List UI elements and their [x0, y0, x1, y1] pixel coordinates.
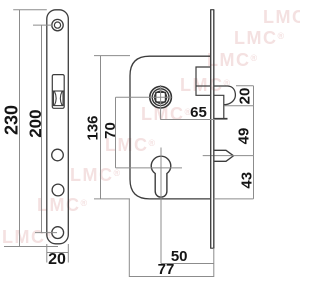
faceplate hole 3 bottom	[52, 227, 64, 239]
svg-text:LMC®: LMC®	[263, 7, 300, 27]
dimension 136 line	[100, 56, 102, 199]
dimension 20 latch extension bottom	[224, 105, 253, 107]
dimension 65 line	[161, 119, 228, 121]
latch bolt step rectangle	[214, 95, 228, 118]
svg-text:77: 77	[158, 261, 175, 278]
forend plate bottom cap	[210, 247, 214, 249]
spindle hole outer ring	[150, 86, 172, 108]
dimension 20 faceplate line	[47, 252, 69, 254]
svg-text:65: 65	[190, 104, 207, 121]
svg-text:43: 43	[239, 172, 256, 189]
forend plate top cap	[210, 9, 214, 11]
dimension 230 extension bottom	[4, 246, 58, 248]
spindle hole inner ring	[155, 91, 167, 103]
latch bolt face bottom line	[53, 105, 64, 107]
spindle horizontal centerline	[116, 96, 172, 98]
latch bolt face top line	[52, 90, 64, 92]
spindle hole middle ring	[152, 89, 169, 106]
faceplate screw hole top inner	[54, 22, 60, 28]
dimension 20 latch extension top	[236, 85, 253, 87]
keyhole euro profile	[151, 156, 171, 197]
latch bolt face hourglass	[54, 91, 62, 106]
svg-text:136: 136	[85, 115, 102, 140]
faceplate hole 1	[52, 149, 64, 161]
dimension 230 line	[19, 10, 21, 247]
plate right extension down	[213, 248, 215, 277]
svg-text:230: 230	[2, 105, 22, 135]
spindle square hole	[156, 92, 166, 102]
keyhole horizontal centerline	[116, 167, 182, 169]
dimension 49 line	[253, 106, 255, 156]
dimension 20 latch line	[253, 86, 255, 106]
dimension 200 extension bottom	[35, 232, 57, 234]
deadbolt centerline	[203, 155, 254, 157]
svg-text:49: 49	[235, 128, 252, 145]
dimension 20 faceplate extension right	[67, 244, 69, 263]
faceplate hole 2	[52, 184, 64, 196]
dimension 20 faceplate extension left	[46, 244, 48, 263]
dimension 200 extension top	[33, 24, 52, 26]
lock body outline	[130, 56, 211, 199]
deadbolt	[214, 150, 234, 161]
latch housing mid line	[196, 85, 211, 87]
forend plate right line	[213, 10, 215, 249]
faceplate screw hole top outer	[52, 19, 63, 30]
dimension 50 line	[161, 263, 214, 265]
latch window	[52, 75, 64, 109]
svg-text:20: 20	[237, 88, 254, 105]
svg-text:20: 20	[48, 251, 66, 268]
keyhole vertical centerline	[160, 148, 162, 264]
body left edge extension down	[128, 199, 130, 277]
faceplate outline	[47, 10, 69, 244]
svg-text:200: 200	[26, 109, 45, 137]
forend plate left line	[210, 10, 212, 249]
latch housing rectangle	[196, 67, 211, 95]
latch bolt face side rails	[54, 91, 64, 106]
dimension 43 line	[253, 156, 255, 199]
dimension 136 extension top	[94, 55, 130, 57]
svg-text:70: 70	[102, 122, 119, 139]
latch bolt head	[214, 86, 236, 105]
dimension 200 line	[41, 25, 43, 233]
dimension 43 extension bottom (body bottom extended)	[214, 198, 254, 200]
dimension 136 extension bottom	[94, 198, 130, 200]
dimension 70 line	[115, 97, 117, 168]
dimension 77 line	[129, 276, 214, 278]
dimension 230 extension top	[13, 9, 47, 11]
spindle vertical centerline	[160, 85, 162, 120]
